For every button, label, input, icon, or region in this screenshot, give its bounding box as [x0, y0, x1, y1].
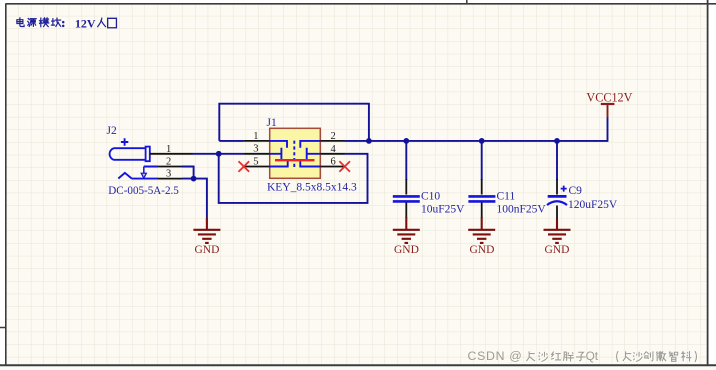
wire rail to power port	[607, 117, 609, 142]
junction node C11	[479, 138, 485, 144]
junction node J2 pin2/pin3	[191, 176, 197, 182]
border zone tick left	[0, 327, 6, 329]
C9 curved bottom plate	[547, 201, 567, 205]
wire J2 pin3 to gnd	[182, 179, 207, 220]
J1 no-connect X pin6	[339, 161, 350, 172]
svg-text:10uF25V: 10uF25V	[421, 203, 465, 215]
svg-text:VCC12V: VCC12V	[586, 91, 632, 105]
svg-text:3: 3	[166, 169, 171, 180]
C11 plates	[468, 196, 495, 201]
svg-text:1: 1	[253, 131, 258, 142]
J1 switch internals	[270, 141, 321, 168]
svg-text:J1: J1	[267, 117, 277, 129]
J1 pin 5	[244, 166, 270, 168]
svg-text:100nF25V: 100nF25V	[497, 203, 547, 215]
sheet border top	[6, 3, 716, 5]
J1 pin 2	[320, 140, 344, 142]
svg-text:C11: C11	[497, 190, 516, 202]
J1 body box	[270, 128, 321, 178]
junction node J1 pin2 output	[366, 138, 372, 144]
J2 tip bar	[146, 147, 150, 162]
C9 plus sign	[561, 186, 567, 192]
svg-text:6: 6	[331, 157, 336, 168]
svg-text:KEY_8.5x8.5x14.3: KEY_8.5x8.5x14.3	[267, 182, 357, 194]
wire C9	[556, 141, 558, 180]
ground C9	[544, 219, 571, 243]
junction node C9	[554, 138, 560, 144]
junction node J2pin1/J1pin3/pin4loop	[216, 151, 222, 157]
svg-text:3: 3	[253, 144, 258, 155]
svg-text:1: 1	[166, 144, 171, 155]
svg-text:DC-005-5A-2.5: DC-005-5A-2.5	[108, 185, 179, 197]
ground C10	[393, 217, 420, 243]
svg-text:GND: GND	[394, 244, 419, 256]
J2 chevron pin2	[118, 173, 131, 179]
svg-text:C9: C9	[569, 185, 583, 197]
title 电源模块： 12V入口	[17, 18, 117, 28]
J1 pin 1	[244, 140, 270, 142]
C10 pin bottom	[405, 203, 407, 219]
J1 pin 4	[320, 153, 344, 155]
J2 pin2 lead-in	[132, 167, 158, 179]
sheet border right	[707, 0, 709, 365]
ground C11	[468, 217, 495, 243]
wire J2 pin2 jog down	[182, 167, 194, 179]
wire J1 pin2 to rail	[345, 140, 369, 142]
sheet border bottom	[0, 364, 716, 366]
svg-text:GND: GND	[195, 244, 220, 256]
J1 pin 6	[320, 166, 344, 168]
svg-text:120uF25V: 120uF25V	[568, 199, 618, 211]
svg-text:2: 2	[331, 131, 336, 142]
J2 pin 3	[158, 178, 182, 180]
wire J1 pin1	[219, 140, 243, 142]
svg-text:GND: GND	[545, 244, 570, 256]
power port stem	[607, 104, 609, 118]
wire C11	[481, 141, 483, 180]
svg-text:GND: GND	[470, 244, 495, 256]
C11 pin top	[481, 179, 483, 195]
svg-text:CSDN @: CSDN @	[468, 349, 523, 363]
J1 no-connect X pin5	[239, 161, 250, 172]
svg-text:Qt: Qt	[586, 349, 599, 363]
C10 plates	[393, 196, 420, 201]
wire main VCC rail	[369, 140, 608, 142]
J2 arrow pin3	[143, 167, 145, 174]
J2 pin 1	[150, 153, 193, 155]
wire bottom loop pin3-pin4 of J1	[219, 154, 368, 203]
J2 barrel pin1	[110, 148, 146, 160]
C9 pin bottom	[556, 206, 558, 221]
junction node C10	[403, 138, 409, 144]
C9 top plate	[548, 195, 567, 198]
svg-text:2: 2	[166, 157, 171, 168]
border zone tick top	[466, 0, 468, 4]
svg-text:J2: J2	[107, 125, 117, 137]
wire top loop pin1-pin2 of J1	[219, 104, 369, 141]
wire C10	[405, 141, 407, 180]
watermark CSDN	[527, 352, 697, 363]
C9 pin top	[556, 179, 558, 195]
J2 plus sign	[121, 138, 128, 145]
wire J2 pin1 to J1 pin3	[193, 153, 244, 155]
svg-text:12V: 12V	[75, 16, 96, 30]
ground J2	[193, 218, 220, 243]
power port bar	[601, 103, 615, 105]
J1 actuator red bar	[275, 159, 315, 161]
J2 pin 2	[158, 166, 182, 168]
C10 pin top	[405, 179, 407, 195]
sheet border left	[5, 4, 7, 366]
svg-text:5: 5	[253, 156, 258, 167]
svg-text:4: 4	[331, 144, 337, 155]
C11 pin bottom	[481, 203, 483, 219]
J1 pin 3	[244, 153, 270, 155]
svg-text:C10: C10	[421, 190, 440, 202]
